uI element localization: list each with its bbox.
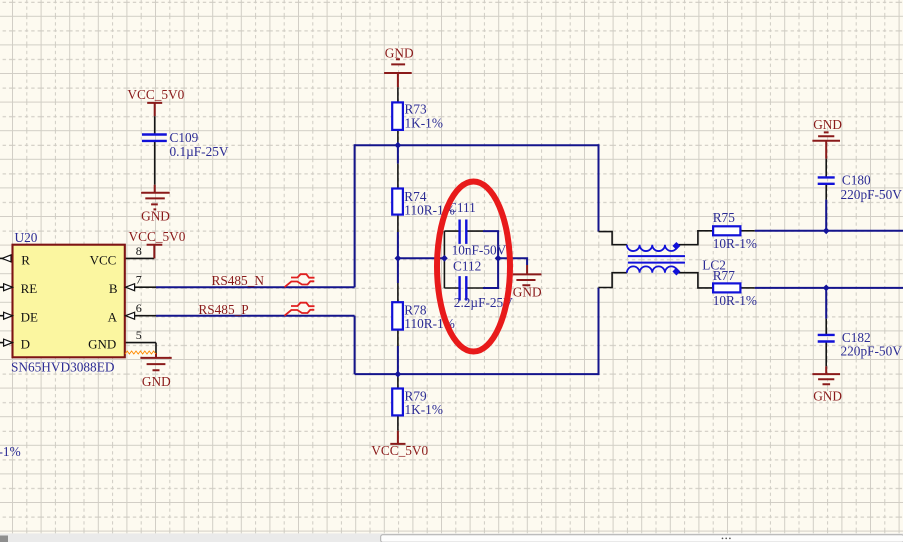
svg-text:C112: C112 (453, 259, 481, 274)
capacitor C111 plates (460, 220, 467, 244)
wire R77 to right edge (755, 287, 903, 289)
ground mid right of C112 (513, 265, 542, 285)
red highlight ellipse (437, 182, 510, 352)
pin DE arrow (4, 312, 13, 319)
svg-text:7: 7 (136, 273, 142, 287)
resistor R77 (713, 283, 740, 292)
svg-text:R77: R77 (713, 268, 736, 283)
scrollbar corner box (0, 536, 8, 542)
capacitor C180 plates (818, 177, 835, 183)
svg-text:R: R (21, 252, 30, 267)
capacitor C112 leads (444, 287, 483, 289)
svg-text:RS485_N: RS485_N (212, 273, 265, 288)
scrollbar grip dots (722, 538, 724, 540)
resistor R73 (392, 102, 403, 129)
svg-text:1K-1%: 1K-1% (405, 115, 443, 130)
transformer LC2 top-left step (599, 232, 627, 245)
power VCC_5V0 bar above C109 (147, 103, 162, 116)
svg-text:10R-1%: 10R-1% (713, 293, 757, 308)
wire caps to GND (498, 258, 528, 265)
wire left vertical upper (354, 144, 356, 287)
junction R75 wire / C180 (823, 227, 830, 234)
differential pair directive on RS485_N (285, 274, 315, 287)
wire main vertical segments (397, 145, 399, 374)
pin 5 GND lead (125, 343, 156, 353)
svg-text:6: 6 (136, 301, 142, 315)
pin RE arrow (4, 284, 13, 291)
svg-text:RE: RE (21, 281, 38, 296)
transformer LC2 bottom-left step (599, 273, 627, 288)
wire mid node to caps (398, 257, 445, 259)
wire RS485_N (156, 286, 355, 288)
svg-text:C109: C109 (170, 130, 199, 145)
capacitor C109 leads (154, 116, 156, 185)
orange compile-error squiggle at pin 5 (125, 351, 156, 354)
pin 7 B lead (125, 286, 156, 288)
pin D lead (0, 342, 13, 344)
svg-text:GND: GND (385, 46, 414, 61)
svg-text:D: D (21, 337, 30, 352)
transformer polarity dot bottom (672, 268, 680, 276)
svg-text:SN65HVD3088ED: SN65HVD3088ED (11, 360, 115, 375)
svg-text:R73: R73 (405, 102, 428, 117)
resistor R79 leads (397, 374, 399, 431)
transformer LC2 top-right step (678, 231, 714, 245)
svg-text:-1%: -1% (0, 444, 21, 459)
resistor R73 leads (397, 87, 399, 146)
JUNCTION DOTS (395, 142, 830, 378)
IC pin arrows (2, 255, 135, 346)
junction cap right node (495, 255, 502, 262)
transformer LC2 core (628, 256, 685, 263)
ground bottom-right below C182 (812, 366, 840, 384)
transformer LC2 bottom-right step (678, 273, 714, 288)
ground top-right above C180 (inverted) (812, 132, 840, 158)
wire RS485_P (156, 315, 355, 317)
pin RE lead (0, 286, 13, 288)
svg-text:8: 8 (136, 244, 142, 258)
capacitor C182 plates (818, 335, 835, 342)
svg-text:10R-1%: 10R-1% (713, 236, 757, 251)
wire left vertical lower (354, 316, 356, 374)
svg-text:10nF-50V: 10nF-50V (452, 242, 507, 257)
svg-text:220pF-50V: 220pF-50V (841, 187, 903, 202)
junction cap left node (441, 255, 448, 262)
transformer polarity dot top (672, 242, 680, 250)
svg-text:GND: GND (813, 117, 842, 132)
svg-text:U20: U20 (15, 230, 38, 245)
resistor R75 right lead (740, 230, 754, 232)
resistor R78 (392, 302, 403, 329)
wire C112 right lead (483, 287, 499, 289)
svg-text:0.1µF-25V: 0.1µF-25V (170, 144, 229, 159)
power VCC_5V0 bar below R79 (390, 431, 405, 444)
resistor R77 right lead (740, 287, 754, 289)
pin 6 A lead (125, 315, 156, 317)
svg-text:5: 5 (136, 328, 142, 342)
pin DE lead (0, 315, 13, 317)
wire top horizontal (355, 144, 599, 146)
ground below C109 (141, 185, 170, 210)
junction mid node (395, 255, 402, 262)
differential pair directive on RS485_P (285, 303, 315, 316)
transformer LC2 bottom winding (627, 266, 678, 272)
svg-text:VCC_5V0: VCC_5V0 (127, 87, 184, 102)
wire C182 upper (825, 288, 827, 319)
svg-text:GND: GND (88, 337, 116, 352)
resistor R74 (392, 189, 403, 215)
svg-text:GND: GND (813, 388, 842, 403)
junction bottom wire (395, 371, 402, 378)
resistor R79 (392, 389, 403, 416)
BLACK PIN LEADS (0, 87, 826, 431)
pin A arrow (126, 312, 135, 319)
capacitor C111 leads and left node (444, 231, 483, 288)
svg-text:GND: GND (141, 209, 170, 224)
wire R75 to right edge (755, 230, 903, 232)
svg-text:RS485_P: RS485_P (198, 302, 248, 317)
svg-text:VCC_5V0: VCC_5V0 (129, 229, 186, 244)
wire cap right node vertical (497, 231, 499, 288)
scrollbar track (0, 533, 903, 542)
pin B arrow (126, 284, 135, 291)
svg-text:C180: C180 (842, 172, 871, 187)
junction R77 wire / C182 (823, 285, 830, 292)
svg-text:GND: GND (513, 285, 542, 300)
pin 8 VCC lead (125, 257, 155, 259)
svg-text:DE: DE (21, 310, 38, 325)
power VCC_5V0 bar at pin 8 (147, 245, 163, 259)
wire right vertical lower (598, 288, 600, 376)
pin R lead (0, 257, 13, 259)
transformer LC2 top winding (627, 245, 678, 251)
IC U20 body (13, 245, 125, 358)
svg-text:VCC_5V0: VCC_5V0 (371, 443, 428, 458)
svg-text:1K-1%: 1K-1% (405, 402, 443, 417)
svg-text:A: A (108, 310, 118, 325)
ground below pin 5 (140, 353, 171, 370)
pin D arrow (4, 339, 13, 346)
resistor R75 (713, 226, 740, 235)
wire right vertical upper (598, 144, 600, 231)
svg-text:GND: GND (142, 374, 171, 389)
junction R73/top wire (395, 142, 402, 149)
svg-text:VCC: VCC (90, 252, 117, 267)
capacitor C180 leads (825, 159, 827, 200)
svg-text:220pF-50V: 220pF-50V (841, 343, 903, 358)
wire C180 lower (825, 200, 827, 231)
resistor R74 leads (397, 164, 399, 232)
wire bottom horizontal (355, 373, 599, 375)
BLUE COMPONENT SYMBOLS (142, 102, 835, 415)
resistor R78 leads (397, 283, 399, 346)
wire C111 right lead (483, 230, 499, 232)
capacitor C182 leads (825, 319, 827, 367)
ground top above R73 (inverted) (384, 59, 412, 87)
svg-text:R75: R75 (713, 210, 736, 225)
MAROON POWER SYMBOLS (140, 59, 840, 444)
pin R arrow (2, 255, 11, 262)
capacitor C112 plates (460, 276, 467, 300)
svg-text:B: B (109, 281, 118, 296)
capacitor C109 plates (142, 135, 167, 141)
scrollbar thumb (381, 535, 903, 542)
